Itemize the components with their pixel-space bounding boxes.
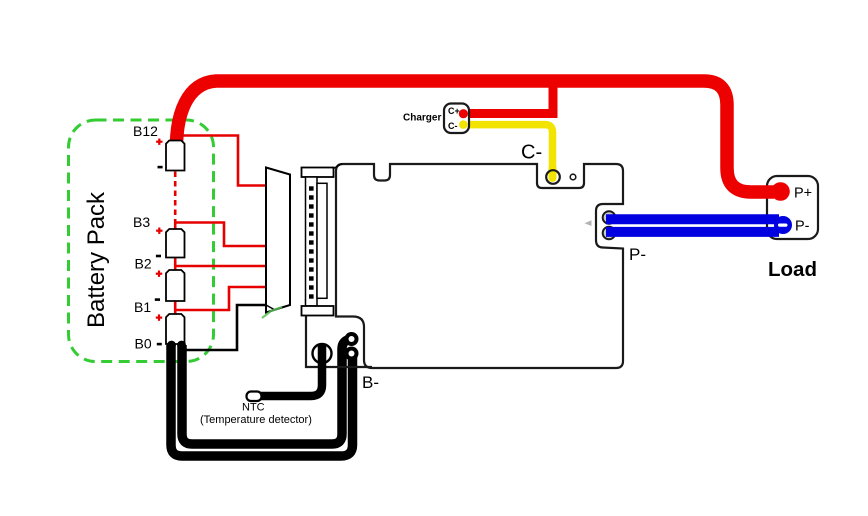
svg-text:B0: B0 [135,335,152,351]
svg-text:B2: B2 [135,256,152,272]
pad P- circle 1 [603,211,616,224]
pin header slot [317,183,327,298]
wire B12 sense (red) [176,136,266,186]
cell B2 [166,270,185,301]
plus mark B3 [156,228,162,234]
svg-text:P+: P+ [794,186,812,202]
load connector [767,176,818,239]
svg-text:B12: B12 [133,123,158,139]
label B0 minus [157,343,162,346]
plus mark B2 [156,271,162,277]
pad B- 1 [345,332,359,346]
node B0 terminal dots [167,341,176,350]
BMS board lower-left section [306,314,372,367]
wire charger C- yellow [464,125,553,178]
svg-text:C+: C+ [448,106,460,116]
pad C- small hole [570,174,576,180]
svg-text:Battery Pack: Battery Pack [83,191,110,328]
cell B12 [166,141,185,171]
load P+ dot [771,182,790,201]
svg-text:Charger: Charger [403,113,441,124]
connector J1 wedge [266,168,290,313]
wire B2 sense (red) [175,265,266,268]
wire B0 sense (black) [185,305,266,350]
pin header body [306,177,318,306]
svg-text:P-: P- [629,245,646,264]
cell B1 [166,314,185,344]
wire B2-B1 series link [174,301,177,314]
artifact arrow [585,220,592,226]
charger C+ dot [459,109,468,118]
svg-text:B3: B3 [133,214,150,230]
svg-text:C-: C- [448,121,458,131]
cell B3 [166,229,185,258]
plus mark B1 [156,314,162,320]
connector J1 bottom notch [266,305,275,310]
green scribble mark [262,307,282,318]
pin header bevel [334,164,343,169]
charger connector [444,104,469,134]
svg-text:B-: B- [362,373,379,392]
pad P- circle 2 [603,227,616,240]
wire B12 thick red positive to top bus [177,81,775,192]
minus mark B12 [158,166,163,169]
svg-text:B1: B1 [134,299,151,315]
charger C- dot [459,120,468,129]
wire B12 to B3 dashed series link [174,172,177,224]
minus mark B2 [155,298,160,301]
pin header top cap [302,168,334,178]
svg-text:C-: C- [521,142,542,164]
svg-text:P-: P- [795,219,810,235]
pad C- circle (yellow wire end) [549,168,557,178]
minus mark B3 [156,255,161,258]
pad B- 2 [345,347,359,361]
wire B- thick black 1 (inner U, right B0 dot to top B- pad) [182,339,352,444]
NTC terminal [247,392,262,402]
wire B3 sense (red) [175,223,266,247]
battery pack boundary (green dashed) [69,120,214,362]
svg-text:(Temperature detector): (Temperature detector) [200,414,312,426]
load P- dot [774,216,792,234]
wire P- blue 2 [606,227,779,237]
BMS board outline [336,164,623,368]
wire B- thick black 2 (outer U, left B0 dot to bottom B- pad) [171,345,353,456]
wire B1 sense (red) [175,287,266,310]
wire P- blue 1 [606,214,779,224]
pin header pins [309,186,314,298]
green scribble mark 2 [306,299,307,312]
svg-text:Load: Load [768,258,817,281]
plus mark B12 [156,139,162,145]
pin header bottom cap [302,306,334,316]
wire charger C+ branch [465,86,553,114]
svg-text:NTC: NTC [242,402,265,414]
wire B3-B2 series link [174,258,177,271]
pad NTC circle [313,344,332,363]
wire NTC thick black [260,344,322,396]
